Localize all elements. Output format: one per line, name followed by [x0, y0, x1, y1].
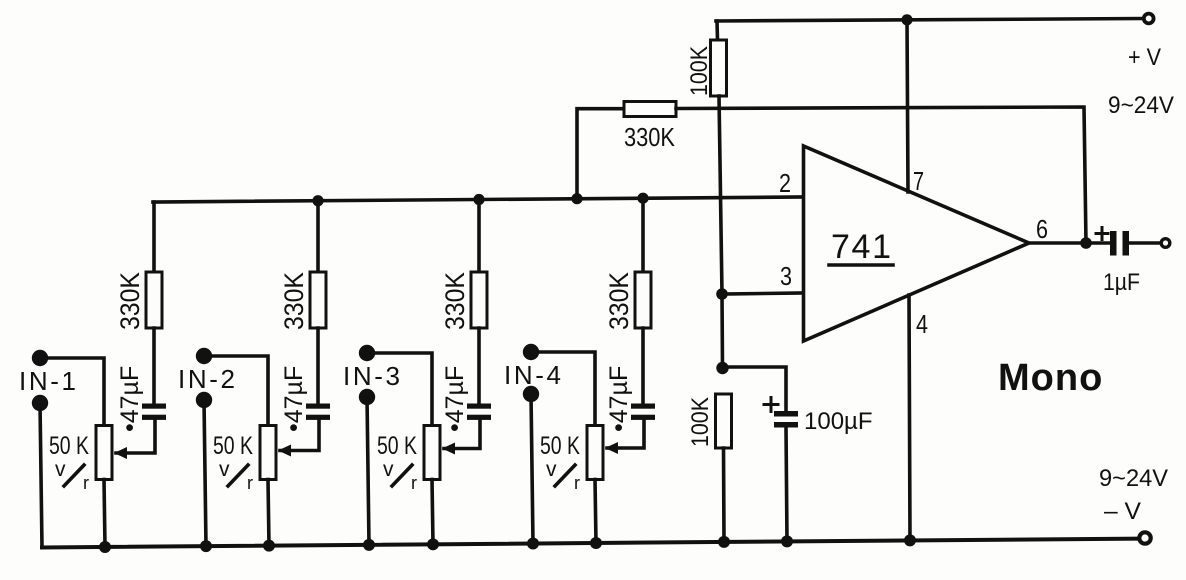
wire IN-4 lower dot down to ground bus [531, 394, 533, 544]
wire pin 7 to +V rail [907, 20, 908, 192]
label v/r for VR1 [55, 458, 89, 493]
resistor R3 330K body [471, 272, 487, 328]
wire C5 bottom plate to ground bus [786, 428, 787, 542]
wire IN-3 top dot to pot VR3 top [367, 353, 432, 426]
node IN-4 input terminal (upper dot) [523, 344, 539, 360]
svg-text:330K: 330K [279, 272, 309, 330]
resistor R4 330K body [635, 272, 651, 328]
junction dot pin 3 node [716, 288, 728, 300]
wire pot VR4 bottom to ground bus [595, 480, 596, 543]
svg-text:•47µF: •47µF [280, 366, 308, 432]
wire pot VR2 bottom to ground bus [268, 480, 269, 546]
svg-text:9~24V: 9~24V [1108, 92, 1174, 119]
junction dot output node [1080, 237, 1092, 249]
wiper arrow of VR1 [114, 447, 127, 459]
wire +V top rail [716, 19, 1143, 22]
node IN-2 ground terminal (lower dot) [196, 392, 212, 408]
wire pot VR3 bottom to ground bus [432, 480, 433, 545]
junction dot pot VR1 on ground bus [99, 541, 111, 553]
wire R6 top lead from +V rail [715, 21, 719, 40]
svg-text:9~24V: 9~24V [1099, 465, 1168, 492]
svg-text:741: 741 [831, 228, 891, 266]
svg-text:+ V: + V [1128, 44, 1161, 71]
wire IN-1 top dot to pot VR1 top [40, 358, 104, 426]
svg-text:4: 4 [916, 309, 928, 339]
junction dot C5 on ground bus [781, 535, 793, 547]
wire 330K R3 top lead from input bus [477, 199, 481, 272]
svg-text:r: r [411, 473, 417, 493]
wire pot VR1 bottom to ground bus [104, 480, 105, 547]
node IN-3 ground terminal (lower dot) [359, 389, 375, 405]
label v/r for VR2 [219, 458, 253, 493]
wire R3 bottom lead to capacitor C3 [477, 328, 481, 404]
wire C3 bottom to VR3 wiper [444, 420, 480, 449]
capacitor C1 .47uF plates [142, 404, 166, 420]
node IN-2 input terminal (upper dot) [196, 348, 212, 364]
svg-text:2: 2 [779, 168, 791, 198]
wire IN-1 lower dot down to ground bus [40, 403, 42, 548]
potentiometer VR2 50K body [260, 426, 276, 480]
wire C6 to output terminal [1129, 241, 1159, 245]
node IN-1 input terminal (upper dot) [32, 350, 48, 366]
junction dot R4 on input bus [637, 193, 648, 204]
svg-text:330K: 330K [440, 272, 470, 330]
wiper arrow of VR4 [605, 442, 618, 454]
junction dot pot VR2 on ground bus [263, 540, 275, 552]
polarity + of C6 [1096, 228, 1108, 240]
potentiometer VR4 50K body [587, 426, 603, 480]
svg-text:50 K: 50 K [213, 432, 253, 460]
resistor R7 100K body [716, 394, 732, 448]
wiper arrow of VR2 [278, 445, 291, 457]
potentiometer VR1 50K body [96, 426, 112, 480]
svg-text:100µF: 100µF [804, 408, 873, 435]
capacitor C3 .47uF plates [467, 404, 491, 420]
terminal output (open circle) [1161, 239, 1170, 248]
resistor R6 100K body [711, 40, 727, 96]
node IN-4 ground terminal (lower dot) [523, 386, 539, 402]
wire C4 bottom to VR4 wiper [607, 420, 644, 448]
capacitor C6 1uF plates [1110, 231, 1129, 256]
junction dot pot VR4 on ground bus [590, 537, 602, 549]
wire C1 bottom to VR1 wiper [116, 420, 155, 453]
svg-text:100K: 100K [687, 397, 714, 447]
svg-text:•47µF: •47µF [116, 366, 144, 432]
resistor R5 330K feedback body (horizontal) [624, 102, 676, 117]
wire 330K R2 top lead from input bus [316, 201, 320, 272]
junction dot IN-3 ground on bus [363, 539, 375, 551]
junction dot bias node [716, 362, 728, 374]
svg-text:6: 6 [1036, 214, 1048, 244]
wire R6 bottom lead down to pin 3 node [719, 96, 722, 294]
wire C2 bottom to VR2 wiper [280, 420, 319, 451]
svg-text:330K: 330K [604, 272, 634, 330]
wire feedback riser up to R5 [577, 109, 624, 199]
svg-text:3: 3 [780, 261, 792, 291]
wire pin 6 output [1029, 241, 1110, 245]
svg-text:r: r [574, 473, 580, 493]
wire R2 bottom lead to capacitor C2 [316, 328, 320, 404]
junction dot IN-4 ground on bus [527, 538, 539, 550]
svg-text:•47µF: •47µF [441, 366, 469, 432]
label v/r for VR3 [383, 458, 417, 493]
wire pin 4 to ground bus [909, 295, 910, 540]
wire pin 3 stub to op-amp [722, 293, 803, 294]
terminal -V (open circle) [1139, 532, 1150, 543]
svg-text:1µF: 1µF [1103, 269, 1140, 296]
junction dot pot VR3 on ground bus [427, 538, 439, 550]
svg-text:•47µF: •47µF [605, 366, 633, 432]
wire bias node branch to C5 [723, 367, 787, 411]
polarity + of C5 [764, 398, 778, 412]
svg-text:330K: 330K [624, 122, 676, 152]
potentiometer VR3 50K body [424, 426, 440, 480]
resistor R1 330K body [146, 272, 162, 328]
svg-text:50 K: 50 K [377, 432, 417, 460]
svg-text:v: v [383, 458, 394, 481]
svg-text:v: v [55, 458, 66, 481]
label v/r for VR4 [546, 458, 580, 493]
junction dot feedback tap on input bus [571, 193, 582, 204]
capacitor C5 100uF plates [774, 411, 798, 428]
node IN-3 input terminal (upper dot) [359, 345, 375, 361]
wire 330K R1 top lead from input bus [152, 202, 156, 272]
svg-text:100K: 100K [686, 46, 713, 96]
wire IN-2 top dot to pot VR2 top [204, 356, 268, 426]
svg-text:r: r [83, 473, 89, 493]
capacitor C2 .47uF plates [306, 404, 330, 420]
wire R7 bottom lead to ground bus [722, 448, 726, 542]
wire ground bus (bottom rail) [42, 539, 1138, 548]
svg-text:– V: – V [1104, 498, 1141, 525]
junction dot R7 on ground bus [718, 536, 730, 548]
wire 330K R4 top lead from input bus [641, 198, 645, 272]
svg-text:Mono: Mono [998, 357, 1103, 399]
wire inverting-input bus to pin 2 [153, 197, 803, 202]
svg-text:7: 7 [913, 166, 924, 196]
junction dot R2 on input bus [312, 195, 323, 206]
op-amp U1 741 triangle [804, 146, 1030, 341]
wire IN-2 lower dot down to ground bus [204, 400, 206, 546]
wire pin 3 node down to bias junction [720, 294, 724, 368]
junction dot IN-2 ground on bus [200, 540, 212, 552]
wiper arrow of VR3 [442, 443, 455, 455]
wire IN-4 top dot to pot VR4 top [531, 352, 595, 426]
junction dot R3 on input bus [473, 194, 484, 205]
svg-text:v: v [219, 458, 230, 481]
svg-text:50 K: 50 K [540, 432, 580, 460]
svg-text:330K: 330K [115, 272, 145, 330]
svg-text:r: r [247, 473, 253, 493]
wire R1 bottom lead to capacitor C1 [152, 328, 156, 404]
resistor R2 330K body [310, 272, 326, 328]
junction dot pin 4 on ground bus [904, 534, 916, 546]
wire R5 right lead across to output node [676, 107, 1086, 243]
svg-text:50 K: 50 K [49, 432, 89, 460]
capacitor C4 .47uF plates [631, 404, 655, 420]
terminal +V (open circle) [1144, 14, 1154, 24]
svg-text:v: v [546, 458, 557, 481]
wire IN-3 lower dot down to ground bus [367, 397, 369, 545]
junction dot pin 7 on +V rail [901, 14, 912, 25]
node IN-1 ground terminal (lower dot) [32, 395, 48, 411]
wire R4 bottom lead to capacitor C4 [641, 328, 645, 404]
